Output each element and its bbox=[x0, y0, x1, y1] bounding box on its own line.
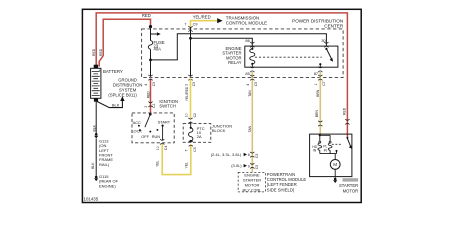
ground G113 bbox=[95, 133, 98, 136]
battery bbox=[91, 68, 101, 98]
svg-text:START: START bbox=[158, 119, 171, 124]
ignition switch blade bbox=[145, 114, 150, 127]
svg-text:STARTER: STARTER bbox=[339, 183, 358, 188]
battery negative post bbox=[94, 98, 98, 101]
wire C9 feed through PDC to exit bbox=[190, 28, 192, 77]
starter motor box bbox=[310, 134, 352, 177]
svg-text:OFF: OFF bbox=[141, 134, 149, 139]
svg-text:10: 10 bbox=[184, 113, 188, 117]
contact OFF bbox=[149, 131, 151, 133]
starter motor ground lead bbox=[334, 169, 336, 178]
ignition switch feed node bbox=[149, 113, 152, 116]
connector at junction block bottom bbox=[189, 141, 193, 146]
wire RED battery positive to fuse 23 bbox=[99, 19, 150, 66]
label ENGINE STARTER MOTOR RELAY bbox=[222, 46, 241, 65]
svg-text:BLK: BLK bbox=[92, 124, 96, 131]
connector on BRN wire at PDC exit bbox=[318, 75, 322, 80]
connector on BRN wire at starter bbox=[318, 121, 322, 126]
svg-text:85: 85 bbox=[245, 71, 250, 76]
contact LOCK bbox=[139, 129, 141, 131]
svg-text:POWER DISTRIBUTION: POWER DISTRIBUTION bbox=[292, 18, 343, 23]
svg-text:C5: C5 bbox=[152, 82, 156, 86]
svg-text:ACC: ACC bbox=[133, 120, 141, 125]
svg-text:(SPLICE B011): (SPLICE B011) bbox=[108, 92, 137, 97]
junction block dashed box bbox=[183, 124, 211, 143]
connector on red ignition feed at PDC exit bbox=[148, 75, 152, 80]
wire branch to relay pin 86 bbox=[191, 38, 253, 46]
svg-text:MOTOR: MOTOR bbox=[343, 188, 359, 193]
wire START output bbox=[162, 126, 164, 141]
svg-text:M: M bbox=[333, 162, 337, 167]
starter motor M bbox=[330, 160, 340, 170]
svg-text:C5: C5 bbox=[193, 147, 197, 151]
svg-text:9: 9 bbox=[248, 164, 250, 168]
svg-text:BLOCK: BLOCK bbox=[212, 128, 226, 133]
svg-text:7: 7 bbox=[184, 22, 186, 26]
svg-text:TAN: TAN bbox=[248, 90, 252, 97]
svg-text:RELAY: RELAY bbox=[228, 60, 242, 65]
svg-text:C4: C4 bbox=[164, 146, 168, 150]
svg-text:C2: C2 bbox=[193, 113, 197, 117]
starter ground bbox=[334, 178, 337, 181]
wire YEL ignition to junction block (U run) bbox=[162, 144, 191, 175]
PCM terminal dashed bracket box bbox=[238, 172, 265, 192]
connector at ignition switch output bbox=[160, 139, 164, 144]
contact RUN bbox=[156, 129, 158, 131]
svg-text:RAIL): RAIL) bbox=[99, 162, 110, 167]
wire RED battery positive to starter B+ bbox=[96, 13, 347, 137]
svg-text:10: 10 bbox=[156, 146, 160, 150]
svg-text:C5: C5 bbox=[254, 82, 258, 86]
svg-text:C5: C5 bbox=[255, 165, 259, 169]
svg-text:CENTER: CENTER bbox=[324, 24, 344, 29]
wire fuse output to relay pin 30 bbox=[151, 34, 327, 60]
svg-text:30: 30 bbox=[321, 38, 326, 43]
svg-text:86: 86 bbox=[245, 38, 250, 43]
svg-text:IN: IN bbox=[313, 149, 317, 153]
label POWER DISTRIBUTION CENTER bbox=[292, 18, 344, 28]
svg-text:RED: RED bbox=[146, 91, 150, 99]
wire YEL/RED PDC to junction block bbox=[190, 78, 192, 119]
svg-text:C1: C1 bbox=[152, 103, 156, 107]
relay switch contact bbox=[325, 48, 327, 50]
fuse 23 40A symbol bbox=[148, 41, 152, 50]
wire BLK battery negative down to grounds bbox=[95, 102, 97, 176]
power distribution center dashed box bbox=[142, 29, 344, 78]
svg-text:2: 2 bbox=[184, 84, 188, 86]
junction node coil feed bbox=[189, 37, 192, 40]
svg-text:(3.0L): (3.0L) bbox=[231, 163, 242, 168]
starter linkage dashed bbox=[332, 143, 341, 145]
connector on TAN wire at PDC exit bbox=[250, 75, 254, 80]
svg-text:BATTERY: BATTERY bbox=[103, 69, 123, 74]
diagram border frame bbox=[82, 9, 361, 202]
label ENGINE STARTER MOTOR RLY CTRL bbox=[243, 173, 263, 193]
battery positive post bbox=[94, 65, 98, 69]
svg-text:BLK: BLK bbox=[112, 102, 120, 107]
svg-text:(2.4L, 3.3L, 3.8L): (2.4L, 3.3L, 3.8L) bbox=[211, 152, 242, 157]
svg-text:8: 8 bbox=[248, 153, 250, 157]
svg-text:YEL/RED: YEL/RED bbox=[193, 15, 211, 20]
svg-text:YEL/RED: YEL/RED bbox=[185, 86, 189, 101]
svg-text:7: 7 bbox=[185, 150, 189, 152]
connector at junction block top bbox=[188, 118, 192, 123]
svg-text:ENGINE): ENGINE) bbox=[99, 184, 116, 189]
svg-text:4: 4 bbox=[246, 84, 250, 86]
starter solenoid windings bbox=[319, 134, 321, 135]
svg-text:RED: RED bbox=[142, 13, 151, 18]
starter internal bus bbox=[320, 150, 337, 159]
svg-text:LOCK: LOCK bbox=[131, 128, 142, 133]
svg-text:CONTROL MODULE: CONTROL MODULE bbox=[226, 20, 267, 25]
connector on YEL/RED wire at PDC exit bbox=[188, 75, 192, 80]
junction node fuse output bbox=[149, 59, 152, 62]
svg-text:4: 4 bbox=[144, 84, 148, 86]
svg-text:BRN: BRN bbox=[315, 109, 319, 117]
label STARTER MOTOR bbox=[343, 178, 359, 181]
svg-text:101435: 101435 bbox=[84, 196, 99, 201]
wire TAN relay pin 85 to PCM bbox=[251, 72, 253, 172]
svg-text:RUN: RUN bbox=[152, 134, 161, 139]
svg-text:RED: RED bbox=[99, 48, 103, 56]
ground G115 bbox=[95, 176, 98, 179]
wire fuse 23 lower lead bbox=[150, 49, 152, 77]
svg-text:YEL: YEL bbox=[156, 160, 160, 167]
starter solenoid contact bbox=[346, 137, 348, 139]
connector C9 symbol on PDC boundary bbox=[188, 26, 192, 31]
svg-text:SWITCH: SWITCH bbox=[159, 103, 176, 108]
svg-text:C5: C5 bbox=[255, 154, 259, 158]
relay coil bbox=[251, 46, 253, 49]
connector at ignition switch bbox=[148, 102, 152, 107]
ignition switch dashed box bbox=[132, 113, 174, 143]
label GROUND DISTRIBUTION SYSTEM (SPLICE B011) bbox=[108, 77, 142, 97]
connector variant (2.4L 3.3L 3.8L) bbox=[250, 152, 254, 157]
svg-text:C9: C9 bbox=[193, 22, 198, 26]
svg-text:TAN: TAN bbox=[248, 125, 252, 132]
PTC 10 2A fuse bbox=[190, 122, 192, 128]
wire RED power distribution center to ignition switch bbox=[150, 78, 152, 113]
svg-text:SIDE SHIELD): SIDE SHIELD) bbox=[267, 187, 295, 192]
wire YEL/RED to transmission control module bbox=[191, 21, 218, 27]
connector variant (3.0L) bbox=[250, 163, 254, 168]
svg-text:YEL: YEL bbox=[184, 162, 188, 169]
relay: engine starter motor relay box bbox=[245, 46, 338, 67]
svg-text:IN: IN bbox=[324, 148, 328, 152]
contact START bbox=[162, 125, 164, 127]
relay pin 87 inner lead bbox=[319, 65, 321, 68]
wire BLK branch to ground distribution splice bbox=[96, 101, 123, 108]
svg-text:40A: 40A bbox=[154, 47, 162, 52]
svg-text:2: 2 bbox=[144, 106, 148, 108]
svg-text:RED: RED bbox=[92, 48, 96, 56]
svg-text:BRN: BRN bbox=[316, 89, 320, 97]
svg-text:BLK: BLK bbox=[91, 162, 95, 169]
svg-text:RED: RED bbox=[342, 107, 346, 115]
svg-text:2A: 2A bbox=[197, 134, 202, 139]
svg-text:RLY CTRL: RLY CTRL bbox=[243, 187, 263, 192]
junction node battery feed into PDC bbox=[149, 25, 152, 28]
connector on RED wire at starter bbox=[345, 119, 349, 124]
wire fuse 23 upper lead bbox=[150, 27, 152, 41]
arrow branch feed to other circuits bbox=[151, 33, 158, 35]
svg-text:C7: C7 bbox=[322, 81, 326, 85]
svg-text:1: 1 bbox=[314, 83, 318, 85]
svg-text:C5: C5 bbox=[192, 82, 196, 86]
contact ACC bbox=[138, 125, 140, 127]
relay linkage dashed bbox=[255, 56, 322, 58]
wire BRN relay pin 87 to starter solenoid bbox=[319, 72, 321, 134]
